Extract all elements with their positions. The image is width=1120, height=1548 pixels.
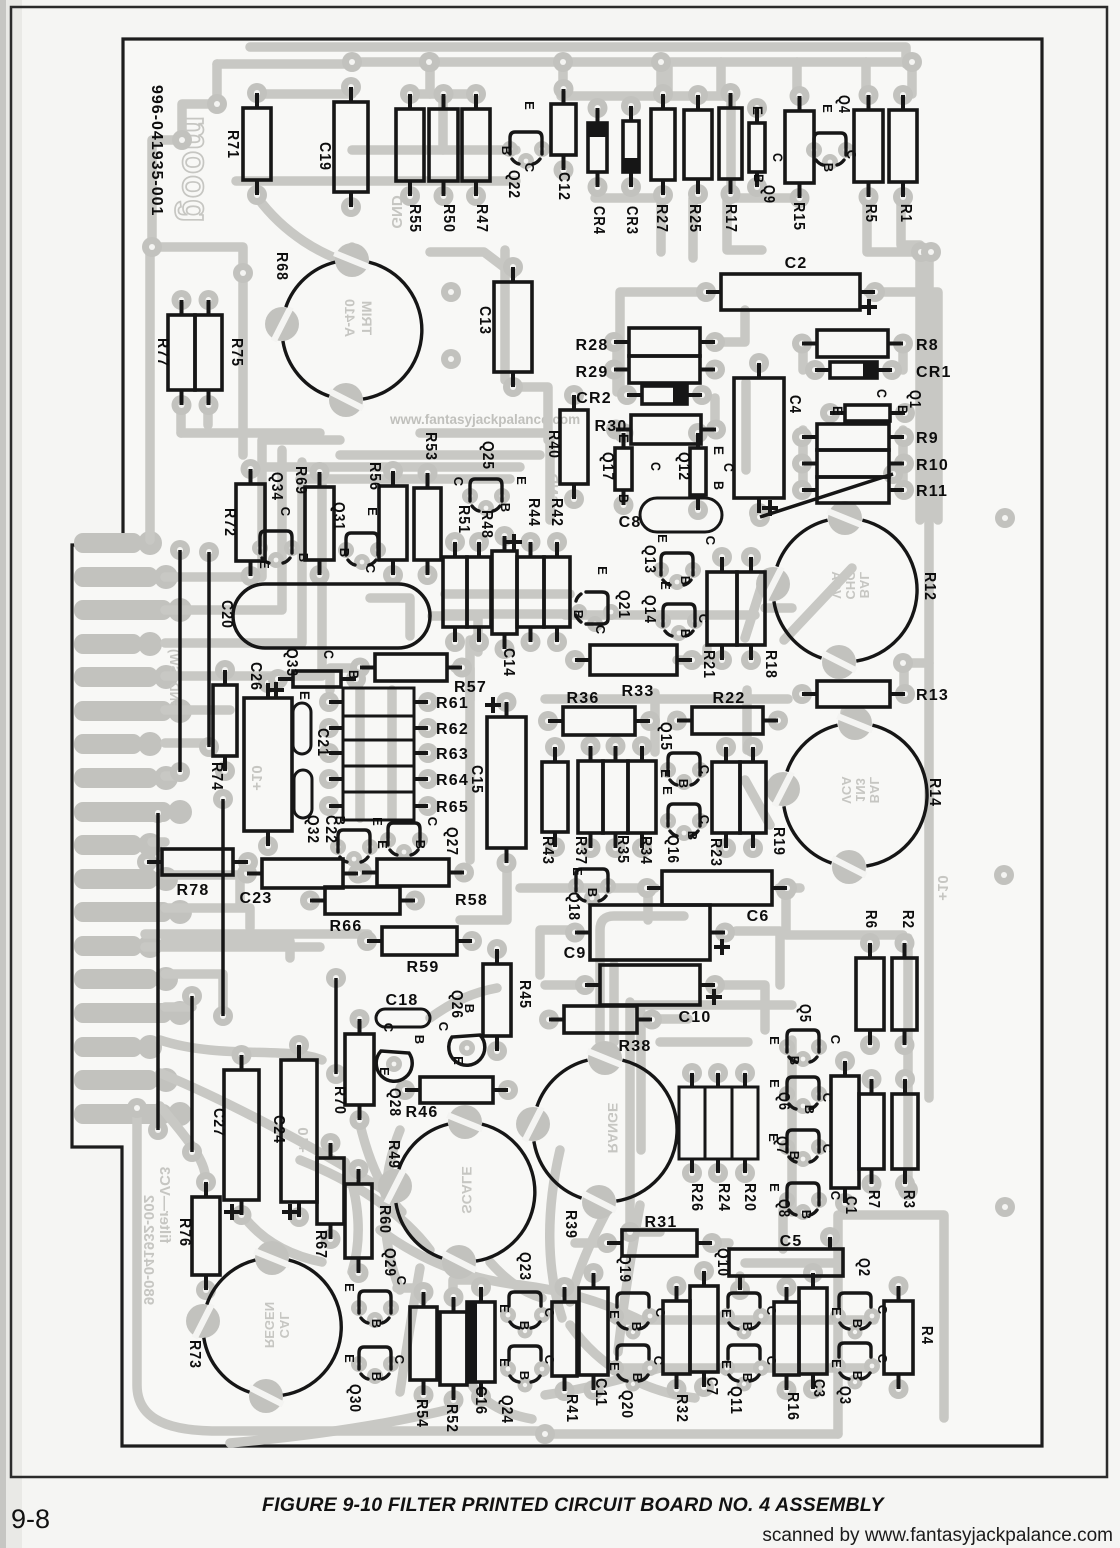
svg-text:C19: C19 xyxy=(316,142,333,171)
svg-text:C: C xyxy=(697,765,712,776)
pads of resistor R15 xyxy=(790,86,810,106)
svg-text:R35: R35 xyxy=(614,835,631,864)
pads of trimmer R14 xyxy=(838,706,872,740)
svg-text:C: C xyxy=(542,1355,557,1366)
wire xyxy=(490,1262,542,1298)
wire xyxy=(181,428,320,438)
capacitor C14 xyxy=(492,551,517,634)
svg-text:CR1: CR1 xyxy=(916,364,952,381)
svg-text:R5: R5 xyxy=(862,204,879,223)
resistor R27 xyxy=(651,109,675,180)
wire xyxy=(677,648,707,660)
wire xyxy=(651,1014,688,1024)
svg-text:E: E xyxy=(830,406,846,416)
wire xyxy=(513,387,548,440)
capacitor C24 xyxy=(281,1060,317,1202)
svg-text:E: E xyxy=(451,1056,466,1066)
transistor Q19 xyxy=(617,1293,649,1307)
transistor Q17 xyxy=(615,448,632,490)
capacitor C6 xyxy=(662,871,772,905)
wire xyxy=(165,1002,192,1012)
trimmer R68 xyxy=(363,262,422,399)
svg-text:C26: C26 xyxy=(247,662,264,691)
svg-text:R45: R45 xyxy=(516,980,533,1009)
pads of capacitor C1 xyxy=(835,1051,855,1071)
resistor R28 xyxy=(629,328,700,356)
wire xyxy=(600,916,684,1042)
svg-text:C: C xyxy=(542,1308,557,1319)
wire xyxy=(609,965,619,1042)
svg-text:Q31: Q31 xyxy=(330,502,347,531)
wire xyxy=(385,1130,400,1290)
wire xyxy=(727,198,762,250)
pads of resistor R44 xyxy=(521,532,541,552)
svg-text:R2: R2 xyxy=(899,910,916,929)
transistor Q6 xyxy=(787,1077,819,1109)
svg-text:R11: R11 xyxy=(916,483,948,500)
svg-text:Q9: Q9 xyxy=(760,185,777,204)
svg-text:B: B xyxy=(412,1035,427,1046)
svg-text:R14: R14 xyxy=(926,778,943,807)
pads of resistor R13 xyxy=(792,684,812,704)
wire xyxy=(352,145,516,155)
pads of resistor R47 xyxy=(466,84,486,104)
svg-text:B: B xyxy=(850,1371,865,1382)
wire xyxy=(798,343,808,370)
wire xyxy=(868,292,938,520)
pads of resistor R72 xyxy=(241,459,261,479)
pads of resistor R1 xyxy=(893,85,913,105)
transistor Q28 xyxy=(376,1051,412,1081)
svg-text:R75: R75 xyxy=(228,338,245,367)
polarity mark C26 xyxy=(268,688,284,692)
svg-text:C2: C2 xyxy=(785,255,808,272)
svg-text:CR3: CR3 xyxy=(623,206,640,235)
pads of capacitor C26 xyxy=(258,673,278,693)
pads of resistor R22 xyxy=(667,711,687,731)
svg-text:1N3: 1N3 xyxy=(853,778,868,802)
trimmer R49 SCALE xyxy=(476,1124,535,1261)
pads of resistor R36 xyxy=(538,711,558,731)
wire xyxy=(465,640,475,860)
svg-text:E: E xyxy=(750,106,766,116)
wire xyxy=(861,62,871,94)
wire xyxy=(160,1106,206,1184)
pads of capacitor C3 xyxy=(803,1263,823,1283)
transistor Q24 xyxy=(509,1346,541,1360)
pads of R61-R65 xyxy=(418,692,438,712)
svg-text:E: E xyxy=(370,817,385,827)
transistor Q25 xyxy=(470,479,502,511)
svg-text:B: B xyxy=(678,576,693,587)
wire xyxy=(330,668,365,690)
pads of resistor R18 xyxy=(741,547,761,567)
pads of trimmer R49 SCALE xyxy=(448,1105,482,1139)
svg-text:R7: R7 xyxy=(865,1190,882,1209)
svg-text:C: C xyxy=(522,163,537,174)
svg-text:E: E xyxy=(595,566,610,576)
wire xyxy=(620,292,707,386)
wire xyxy=(663,62,673,94)
svg-text:R6: R6 xyxy=(862,910,879,929)
wire xyxy=(400,1268,420,1392)
svg-text:C: C xyxy=(697,815,712,826)
svg-text:R42: R42 xyxy=(548,498,565,527)
svg-text:C27: C27 xyxy=(210,1108,227,1137)
svg-text:980-041932-002: 980-041932-002 xyxy=(140,1195,157,1305)
resistor R29 xyxy=(629,356,700,383)
resistor R53 xyxy=(414,488,441,560)
pads of transistor Q15 xyxy=(660,762,676,778)
resistor R31 xyxy=(622,1230,697,1256)
transistor Q23 xyxy=(509,1292,541,1306)
wire jumper W3 xyxy=(156,813,160,1130)
transistor Q9 xyxy=(749,123,765,172)
wire xyxy=(250,47,906,64)
capacitor C13 xyxy=(494,282,532,372)
pads of transistor Q9 xyxy=(747,98,767,118)
wire xyxy=(565,610,755,620)
svg-text:Q19: Q19 xyxy=(616,1254,633,1283)
resistor R54 xyxy=(410,1307,437,1380)
wire xyxy=(165,450,282,610)
svg-text:R60: R60 xyxy=(376,1205,393,1234)
svg-text:Q4: Q4 xyxy=(835,95,852,114)
transistor Q4 xyxy=(814,133,846,165)
svg-text:C16: C16 xyxy=(472,1386,489,1415)
svg-text:R56: R56 xyxy=(366,462,383,491)
pads of resistor R4 xyxy=(889,1276,909,1296)
svg-text:R65: R65 xyxy=(436,799,469,816)
pads of resistor R30 xyxy=(606,420,626,440)
pads of resistor R56 xyxy=(383,461,403,481)
wire xyxy=(137,1108,545,1431)
wire xyxy=(165,440,340,577)
pads of resistor R69 xyxy=(310,462,330,482)
pads of resistor R40 xyxy=(564,385,584,405)
svg-text:C: C xyxy=(703,536,718,547)
wire xyxy=(688,198,698,258)
wire xyxy=(840,512,850,528)
svg-text:R26: R26 xyxy=(688,1183,705,1212)
transistor Q2 xyxy=(839,1293,871,1307)
pads of transistor Q32 xyxy=(330,839,346,855)
resistor R15 xyxy=(785,111,814,183)
pads of resistor R35 xyxy=(606,736,626,756)
svg-text:E: E xyxy=(658,769,673,779)
wire xyxy=(898,430,908,490)
svg-text:R13: R13 xyxy=(916,687,949,704)
resistor R37 xyxy=(578,761,603,833)
svg-text:C: C xyxy=(648,462,664,472)
svg-text:E: E xyxy=(570,867,585,877)
resistor R41 xyxy=(552,1302,577,1376)
svg-text:R20: R20 xyxy=(741,1183,758,1212)
svg-text:R25: R25 xyxy=(686,204,703,233)
svg-text:Q25: Q25 xyxy=(479,441,496,470)
capacitor C2 xyxy=(721,274,860,310)
svg-text:CAL: CAL xyxy=(277,1312,292,1339)
pads of resistor R7 xyxy=(862,1069,882,1089)
pads of resistor R2 xyxy=(895,933,915,953)
wire xyxy=(380,1230,520,1285)
polarity mark C27 xyxy=(224,1210,240,1214)
svg-text:R48: R48 xyxy=(478,510,495,539)
wire xyxy=(257,197,352,264)
svg-text:E: E xyxy=(655,534,670,544)
wire xyxy=(397,1288,423,1300)
capacitor C16 xyxy=(467,1302,495,1382)
svg-text:R66: R66 xyxy=(330,918,363,935)
svg-text:Q34: Q34 xyxy=(268,472,285,501)
resistor R2 xyxy=(892,958,917,1030)
pads of transistor Q1 xyxy=(820,403,840,423)
transistor Q31 xyxy=(346,533,378,565)
pads of capacitor C10 xyxy=(575,975,595,995)
svg-text:C: C xyxy=(874,389,890,399)
svg-text:B: B xyxy=(850,1319,865,1330)
svg-text:Q1: Q1 xyxy=(906,390,923,409)
pads of resistor R52 xyxy=(444,1287,464,1307)
svg-text:R10: R10 xyxy=(916,457,949,474)
wire xyxy=(250,462,520,472)
svg-text:C24: C24 xyxy=(270,1115,287,1144)
resistor R46 xyxy=(420,1077,493,1103)
pads of capacitor C11 xyxy=(584,1263,604,1283)
transistor Q16 xyxy=(668,804,700,836)
wire xyxy=(236,176,516,186)
resistor R44 xyxy=(517,557,544,627)
svg-text:FIGURE 9-10 FILTER PRINTED CIR: FIGURE 9-10 FILTER PRINTED CIRCUIT BOARD… xyxy=(262,1494,885,1516)
wire xyxy=(165,771,180,781)
svg-text:E: E xyxy=(297,691,313,701)
pads of transistor Q8 xyxy=(779,1192,795,1208)
wire xyxy=(300,1160,430,1250)
polarity mark C14 xyxy=(506,540,522,544)
wire xyxy=(355,690,365,818)
svg-text:R73: R73 xyxy=(186,1340,203,1369)
pads of trimmer R73 REGEN xyxy=(255,1241,289,1275)
svg-text:scanned by www.fantasyjackpala: scanned by www.fantasyjackpalance.com xyxy=(762,1525,1113,1546)
pads of wire jumper W5 xyxy=(182,986,202,1006)
svg-text:C22: C22 xyxy=(322,815,339,844)
svg-text:Q13: Q13 xyxy=(641,545,658,574)
pads of resistor R38 xyxy=(539,1010,559,1030)
svg-text:C: C xyxy=(321,650,337,660)
svg-text:B: B xyxy=(498,503,513,514)
pads of resistor R43 xyxy=(545,737,565,757)
pads of transistor Q27 xyxy=(380,832,396,848)
wire xyxy=(165,738,209,748)
svg-text:R28: R28 xyxy=(576,337,609,354)
capacitor C11 xyxy=(579,1288,608,1375)
svg-text:C: C xyxy=(764,1306,779,1317)
transistor Q27 xyxy=(388,823,420,855)
transistor Q5 xyxy=(787,1030,819,1062)
transistor Q3 xyxy=(839,1343,871,1357)
svg-text:C7: C7 xyxy=(703,1377,720,1396)
svg-text:C: C xyxy=(593,625,608,636)
svg-text:B: B xyxy=(740,1322,755,1333)
resistor R72 xyxy=(236,484,265,561)
resistor R11 xyxy=(817,477,889,503)
resistor R10 xyxy=(817,450,889,477)
pads of resistor R67 xyxy=(321,1133,341,1153)
svg-text:VCA: VCA xyxy=(839,776,854,804)
svg-text:R70: R70 xyxy=(331,1086,348,1115)
wire xyxy=(643,888,653,920)
svg-text:B: B xyxy=(337,548,352,559)
svg-text:E: E xyxy=(607,1310,622,1320)
transistor Q15 xyxy=(668,753,700,785)
svg-text:R71: R71 xyxy=(224,130,241,159)
polarity mark C2 xyxy=(861,305,877,309)
pads of trimmer R39 RANGE xyxy=(588,1041,622,1075)
svg-text:B: B xyxy=(616,494,632,504)
wire xyxy=(867,198,929,1098)
svg-text:R9: R9 xyxy=(916,430,939,447)
pads of R26 R24 R20 xyxy=(682,1063,702,1083)
wire xyxy=(650,693,660,752)
pads of transistor Q23 xyxy=(500,1307,516,1323)
svg-text:B: B xyxy=(585,888,600,899)
svg-text:R16: R16 xyxy=(784,1392,801,1421)
wire xyxy=(420,428,545,438)
transistor Q10 xyxy=(728,1293,760,1307)
resistor R36 xyxy=(563,707,635,735)
svg-text:R39: R39 xyxy=(562,1210,579,1239)
capacitor C12 xyxy=(551,104,576,155)
svg-text:R21: R21 xyxy=(700,650,717,679)
resistor R60 xyxy=(345,1184,372,1258)
pads of capacitor C19 xyxy=(341,77,361,97)
svg-text:C6: C6 xyxy=(747,908,770,925)
svg-text:R4: R4 xyxy=(918,1326,935,1345)
svg-text:Q32: Q32 xyxy=(304,815,321,844)
svg-text:+10: +10 xyxy=(934,875,951,900)
svg-text:Q22: Q22 xyxy=(505,170,522,199)
pads of capacitor C14 xyxy=(495,526,515,546)
pads of capacitor C4 xyxy=(749,353,769,373)
pads of transistor Q26 xyxy=(459,1040,475,1056)
pads of transistor Q19 xyxy=(608,1308,624,1324)
svg-text:R43: R43 xyxy=(539,836,556,865)
wire xyxy=(736,931,780,985)
svg-text:BAL: BAL xyxy=(867,777,882,804)
wire xyxy=(340,450,540,460)
wire xyxy=(710,398,720,430)
wire xyxy=(256,89,352,99)
wire xyxy=(903,938,913,1190)
svg-text:E: E xyxy=(719,1360,734,1370)
wire xyxy=(570,1205,610,1302)
resistor R7 xyxy=(859,1094,884,1169)
pads of transistor Q22 xyxy=(502,141,518,157)
wire xyxy=(714,310,745,342)
pads of wire jumper W3 xyxy=(148,803,168,823)
wire xyxy=(616,1363,874,1373)
wire jumper W7 xyxy=(334,978,338,1074)
svg-text:C5: C5 xyxy=(780,1233,803,1250)
svg-text:R30: R30 xyxy=(595,418,628,435)
capacitor C10 xyxy=(600,965,700,1005)
leads of C5 xyxy=(738,1276,742,1290)
svg-text:R3: R3 xyxy=(900,1190,917,1209)
wire xyxy=(716,62,726,94)
svg-text:R67: R67 xyxy=(312,1230,329,1259)
trimmer R12 xyxy=(856,520,917,661)
pads of transistor Q30 xyxy=(351,1356,367,1372)
svg-text:C11: C11 xyxy=(592,1378,609,1407)
transistor Q30 xyxy=(359,1347,391,1379)
wire xyxy=(430,252,513,274)
svg-text:C12: C12 xyxy=(555,172,572,201)
resistor R18 xyxy=(737,572,765,645)
diode CR1 xyxy=(830,362,877,378)
pads of capacitor C24 xyxy=(289,1035,309,1055)
pads of transistor Q13 xyxy=(653,562,669,578)
resistor R71 xyxy=(243,108,271,180)
pads of resistor R59 xyxy=(357,931,377,951)
svg-text:R31: R31 xyxy=(645,1214,678,1231)
pads of wire jumper W6 xyxy=(750,507,770,527)
wire xyxy=(425,62,435,94)
svg-text:R8: R8 xyxy=(916,337,939,354)
wire xyxy=(152,837,165,847)
pads of resistor R42 xyxy=(547,532,567,552)
svg-text:R77: R77 xyxy=(154,338,171,367)
svg-text:996-041935-001: 996-041935-001 xyxy=(148,85,165,216)
pads of capacitor C12 xyxy=(554,79,574,99)
pads of trimmer R68 xyxy=(335,243,369,277)
wire xyxy=(470,1382,532,1419)
transistor Q11 xyxy=(728,1345,760,1359)
pads of resistor R25 xyxy=(688,85,708,105)
resistor R35 xyxy=(603,761,628,833)
svg-text:B: B xyxy=(740,1373,755,1384)
svg-text:Q23: Q23 xyxy=(516,1252,533,1281)
svg-text:C: C xyxy=(653,1308,668,1319)
svg-text:C: C xyxy=(394,1276,409,1287)
resistor R16 xyxy=(774,1302,799,1375)
wire xyxy=(445,589,570,599)
svg-text:Q24: Q24 xyxy=(498,1395,515,1424)
svg-text:SCALE: SCALE xyxy=(459,1166,475,1213)
pads of resistor R51 xyxy=(445,532,465,552)
resistor R52 xyxy=(440,1312,467,1385)
svg-text:R74: R74 xyxy=(208,762,225,791)
pads of resistor R53 xyxy=(418,463,438,483)
svg-text:R1: R1 xyxy=(897,204,914,223)
svg-text:C: C xyxy=(392,1355,407,1366)
svg-text:E: E xyxy=(342,1283,357,1293)
wire xyxy=(612,342,622,392)
wire xyxy=(160,1073,397,1198)
resistor R59 xyxy=(382,927,457,955)
wire xyxy=(230,1408,455,1443)
wire jumper W5 xyxy=(190,996,194,1152)
wire xyxy=(432,616,478,652)
capacitor C4 xyxy=(734,378,784,498)
resistor R55 xyxy=(396,109,424,181)
pads of resistor R29 xyxy=(604,360,624,380)
pads of resistor R27 xyxy=(653,84,673,104)
wire xyxy=(160,1040,322,1060)
pads of transistor Q24 xyxy=(500,1361,516,1377)
svg-text:E: E xyxy=(375,840,390,850)
pads of resistor R3 xyxy=(895,1069,915,1089)
wire xyxy=(152,64,243,273)
